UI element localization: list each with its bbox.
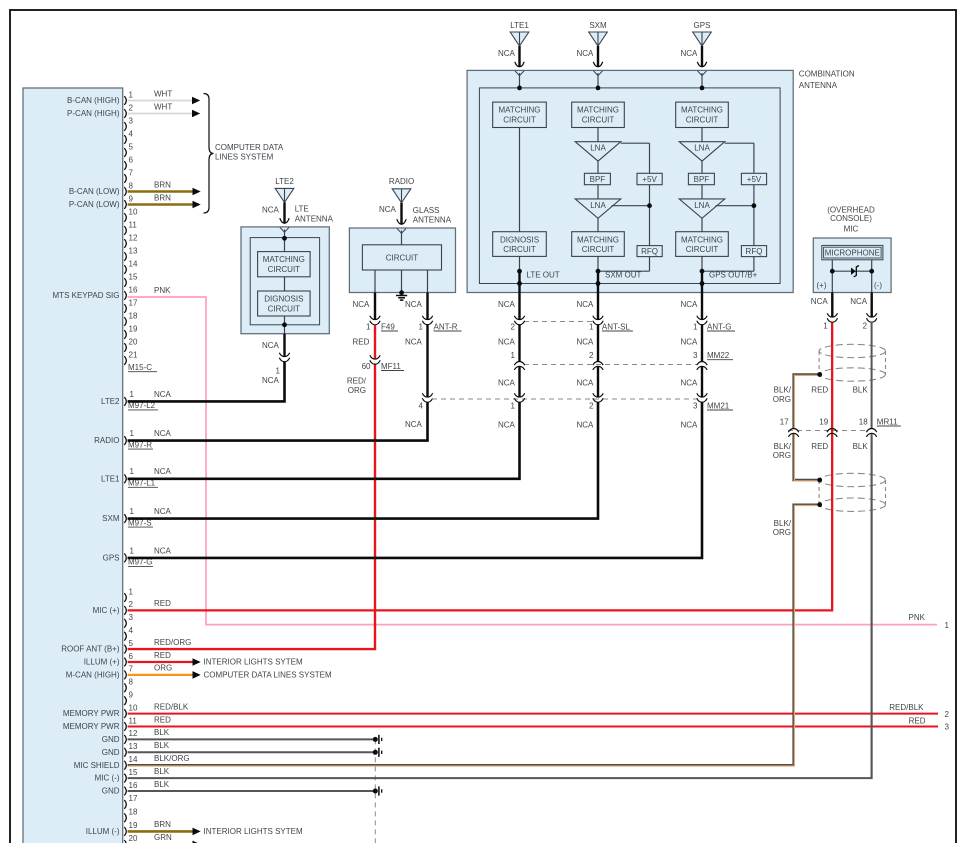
svg-text:GND: GND (102, 787, 120, 796)
svg-text:17: 17 (780, 417, 789, 426)
pin bracket M15-C pin 9 (124, 200, 126, 209)
svg-text:NCA: NCA (405, 337, 423, 346)
shield capsule 1 right side (885, 351, 887, 375)
svg-text:9: 9 (129, 691, 134, 700)
wire NCA mic(-) below (871, 293, 873, 318)
shield capsule 1 left side (818, 351, 820, 375)
+5V regulator SXM (637, 173, 662, 184)
svg-text:CIRCUIT: CIRCUIT (503, 116, 536, 125)
pin bracket M15-B pin 5 (124, 645, 126, 654)
svg-text:BLK/ORG: BLK/ORG (154, 754, 190, 763)
svg-text:19: 19 (129, 821, 138, 830)
junction dot top x=519.5 (517, 86, 522, 91)
svg-text:RFQ: RFQ (641, 247, 658, 256)
wire NCA RADIO to head unit (128, 402, 428, 441)
inline connector row1 GPS (697, 316, 707, 320)
wire NCA LTE2 to head unit (128, 362, 285, 402)
wire BLK/ORG MR11 to capsule2 top (794, 434, 820, 481)
svg-text:NCA: NCA (681, 379, 699, 388)
junction dot aux GPS (752, 203, 757, 208)
svg-text:MATCHING: MATCHING (498, 106, 540, 115)
shield capsule 2 right side (885, 480, 887, 505)
pin bracket M15-B pin 15 (124, 774, 126, 783)
pin bracket M15-B pin 14 (124, 761, 126, 770)
svg-text:NCA: NCA (577, 379, 595, 388)
entry notch RADIO (397, 229, 406, 234)
svg-text:LNA: LNA (694, 201, 710, 210)
BPF SXM (584, 173, 610, 184)
svg-text:MICROPHONE: MICROPHONE (825, 249, 880, 258)
wire NCA ANT-R col (426, 293, 428, 320)
wire WHT pin2 P-CAN HIGH (128, 113, 192, 115)
svg-text:1: 1 (130, 390, 135, 399)
svg-text:ILLUM (+): ILLUM (+) (84, 658, 120, 667)
svg-text:ANTENNA: ANTENNA (295, 214, 334, 223)
svg-text:LTE2: LTE2 (275, 177, 294, 186)
pin bracket M15-C pin 1 (124, 96, 126, 105)
entry arrow RADIO (397, 219, 406, 224)
svg-text:6: 6 (129, 652, 134, 661)
pin bracket M15-C pin 17 (124, 304, 126, 313)
circuit glass antenna (362, 245, 441, 270)
svg-text:LINES SYSTEM: LINES SYSTEM (215, 153, 274, 162)
junction dot top x=702 (700, 86, 705, 91)
svg-text:MATCHING: MATCHING (577, 106, 619, 115)
wire RFQ to GPS out (702, 270, 754, 272)
svg-text:1: 1 (130, 507, 135, 516)
junction dot mic right (869, 269, 874, 274)
pin bracket M15-C pin 16 (124, 291, 126, 300)
inline connector MM22 LTE (514, 366, 524, 370)
svg-text:NCA: NCA (353, 300, 371, 309)
svg-text:1: 1 (276, 366, 281, 375)
pin bracket M15-B pin 9 (124, 696, 126, 705)
shield tap dot capsule2 bottom (817, 502, 822, 507)
svg-text:CIRCUIT: CIRCUIT (582, 245, 615, 254)
pin bracket M15-B pin 18 (124, 813, 126, 822)
wire +5V to RFQ SXM (649, 185, 651, 246)
wire GPS col 2 (701, 161, 703, 173)
inline connector MF11 pin60 (370, 355, 380, 359)
pin bracket M15-C pin 6 (124, 161, 126, 170)
svg-text:17: 17 (129, 794, 138, 803)
svg-text:4: 4 (129, 626, 134, 635)
wire circuit right leg (427, 270, 429, 293)
svg-text:ORG: ORG (773, 451, 791, 460)
svg-text:WHT: WHT (154, 89, 172, 98)
svg-text:GPS OUT/B+: GPS OUT/B+ (709, 270, 758, 279)
svg-text:CIRCUIT: CIRCUIT (268, 304, 301, 313)
inline connector LTE2 pin1 (279, 353, 289, 357)
svg-text:2: 2 (129, 103, 134, 112)
svg-text:CIRCUIT: CIRCUIT (503, 245, 536, 254)
pin bracket M15-B pin 11 (124, 722, 126, 731)
svg-text:BLK: BLK (853, 442, 869, 451)
LNA 2 GPS (679, 199, 725, 218)
matching circuit SXM top (572, 102, 625, 127)
wire RFQ down SXM (649, 257, 651, 272)
svg-text:NCA: NCA (681, 300, 699, 309)
microphone box (822, 245, 883, 259)
wire GPS col 1 (701, 128, 703, 142)
pin bracket M15-B pin 4 (124, 632, 126, 641)
svg-text:BPF: BPF (694, 175, 710, 184)
svg-text:MR11: MR11 (877, 417, 898, 426)
RFQ SXM (637, 246, 662, 257)
wire NCA GPS out 2 (701, 325, 703, 362)
svg-text:NCA: NCA (850, 297, 868, 306)
svg-text:BLK: BLK (853, 386, 869, 395)
svg-text:19: 19 (819, 417, 828, 426)
svg-text:ANT-SL: ANT-SL (602, 322, 631, 331)
inline connector row1 LTE (514, 316, 524, 320)
svg-text:INTERIOR LIGHTS SYTEM: INTERIOR LIGHTS SYTEM (204, 658, 303, 667)
pin bracket M15-B pin 10 (124, 709, 126, 718)
svg-text:NCA: NCA (681, 337, 699, 346)
svg-text:NCA: NCA (405, 300, 423, 309)
wire NCA LTE2 below box (283, 334, 285, 357)
svg-text:1: 1 (130, 467, 135, 476)
arrowhead pin20 (193, 841, 201, 843)
wire SXM col 2 (597, 161, 599, 173)
svg-text:12: 12 (129, 233, 138, 242)
svg-text:ORG: ORG (154, 664, 172, 673)
pin bracket M15-C pin 14 (124, 265, 126, 274)
LTE antenna box (241, 227, 329, 334)
svg-text:RED: RED (154, 715, 171, 724)
wire BLK MIC(-) pin15 (128, 436, 872, 778)
svg-text:WHT: WHT (154, 102, 172, 111)
svg-text:NCA: NCA (681, 421, 699, 430)
pin bracket M15-C pin 21 (124, 356, 126, 365)
wire RFQ to SXM out (598, 270, 650, 272)
svg-text:NCA: NCA (498, 421, 516, 430)
junction dot mic left (830, 269, 835, 274)
svg-text:13: 13 (129, 742, 138, 751)
wire mic left leg (831, 260, 833, 293)
svg-text:+5V: +5V (642, 175, 657, 184)
dashed connector row MR11 (788, 430, 868, 432)
wire BRN ILLUM(-) pin19 (128, 830, 193, 833)
svg-text:ILLUM (-): ILLUM (-) (86, 827, 120, 836)
matching circuit LTE2 (258, 252, 311, 277)
svg-text:COMPUTER DATA: COMPUTER DATA (215, 143, 284, 152)
svg-text:3: 3 (129, 116, 134, 125)
pin bracket M15-C pin 5 (124, 148, 126, 157)
svg-text:BLK: BLK (154, 728, 170, 737)
ground symbol glass antenna (396, 295, 407, 297)
shield capsule 2 left side (818, 480, 820, 505)
svg-text:16: 16 (129, 781, 138, 790)
svg-text:NCA: NCA (498, 300, 516, 309)
wire NCA RADIO antenna (400, 203, 402, 225)
pin bracket M15-B pin 7 (124, 671, 126, 680)
pin bracket M15-C pin 2 (124, 109, 126, 118)
wire RADIO inner 1 (401, 231, 403, 245)
svg-text:NCA: NCA (811, 297, 829, 306)
svg-text:LTE1: LTE1 (510, 21, 529, 30)
inline connector MM21 GPS (697, 393, 707, 397)
svg-text:BRN: BRN (154, 820, 171, 829)
svg-text:GPS: GPS (103, 554, 120, 563)
svg-text:1: 1 (419, 322, 424, 331)
svg-text:COMBINATION: COMBINATION (799, 69, 855, 78)
dignosis circuit LTE2 (258, 291, 311, 316)
wire NCA SXM out 1 (597, 293, 599, 320)
svg-text:5: 5 (129, 639, 134, 648)
svg-text:NCA: NCA (262, 341, 280, 350)
BPF GPS (688, 173, 714, 184)
svg-text:(-): (-) (874, 281, 882, 290)
svg-text:BPF: BPF (590, 175, 606, 184)
shield tap dot capsule1 (817, 372, 822, 377)
svg-text:8: 8 (129, 678, 134, 687)
wire RED MEMORY PWR pin11 (128, 726, 938, 728)
svg-text:20: 20 (129, 337, 138, 346)
junction dot LTE OUT (517, 269, 522, 274)
svg-text:13: 13 (129, 246, 138, 255)
svg-text:LNA: LNA (590, 201, 606, 210)
entry notch at x=702 (698, 71, 707, 76)
pin bracket M97-R pin 1 (124, 436, 126, 445)
wire aux down to +5V GPS (753, 143, 755, 173)
svg-text:MEMORY PWR: MEMORY PWR (63, 722, 120, 731)
svg-text:B-CAN (LOW): B-CAN (LOW) (69, 187, 120, 196)
svg-text:NCA: NCA (577, 421, 595, 430)
wire NCA antenna LTE1 (518, 46, 520, 67)
svg-text:2: 2 (945, 710, 950, 719)
svg-text:10: 10 (129, 207, 138, 216)
svg-text:ANTENNA: ANTENNA (799, 81, 838, 90)
wire LTE OUT out (518, 271, 520, 292)
svg-text:MM21: MM21 (707, 401, 730, 410)
wire into inner box x=598 (597, 73, 599, 88)
svg-text:MATCHING: MATCHING (577, 235, 619, 244)
inline connector mic pin2 (867, 313, 877, 317)
svg-text:NCA: NCA (405, 420, 423, 429)
svg-text:2: 2 (589, 401, 594, 410)
svg-text:60: 60 (362, 362, 371, 371)
svg-text:19: 19 (129, 324, 138, 333)
pin bracket M15-C pin 11 (124, 226, 126, 235)
dashed connector row MM21 (432, 398, 697, 400)
svg-text:GND: GND (102, 748, 120, 757)
svg-text:NCA: NCA (262, 206, 280, 215)
wire NCA F49 col (374, 293, 376, 320)
inline connector MM22 SXM (593, 366, 603, 370)
dashed ground link line (374, 739, 376, 843)
arrowhead pin9 (193, 201, 201, 209)
wire mic right leg (871, 260, 873, 293)
arrowhead pin1 (192, 97, 200, 105)
svg-text:GND: GND (102, 735, 120, 744)
pin bracket M15-C pin 3 (124, 122, 126, 131)
svg-text:NCA: NCA (154, 390, 172, 399)
wire LNA1 GPS to +5V (725, 142, 754, 144)
svg-text:LTE2: LTE2 (101, 397, 120, 406)
wire NCA LTE out 2 (518, 325, 520, 362)
junction dot top x=598 (596, 86, 601, 91)
svg-text:CIRCUIT: CIRCUIT (686, 245, 719, 254)
svg-text:M-CAN (HIGH): M-CAN (HIGH) (66, 671, 120, 680)
pin bracket M15-C pin 4 (124, 135, 126, 144)
wire BLK GND pin12 (128, 738, 376, 740)
wire aux down to +5V SXM (649, 143, 651, 173)
svg-text:RADIO: RADIO (389, 177, 414, 186)
svg-text:LTE: LTE (295, 205, 309, 214)
LTE antenna inner box (250, 238, 319, 325)
zener diode mic (851, 268, 856, 275)
wire RFQ down GPS (753, 257, 755, 272)
matching circuit LTE (493, 102, 547, 127)
svg-text:GPS: GPS (694, 21, 711, 30)
pin bracket M15-C pin 20 (124, 343, 126, 352)
svg-text:1: 1 (129, 90, 134, 99)
antenna symbol GPS (693, 32, 712, 46)
pin bracket M15-B pin 2 (124, 606, 126, 615)
wire GPS col 4 (701, 217, 703, 231)
pin bracket M15-B pin 12 (124, 735, 126, 744)
pin bracket M97-L1 pin 1 (124, 474, 126, 483)
svg-text:1: 1 (129, 587, 134, 596)
junction dot inner edge GPS OUT/B+ (700, 281, 705, 286)
svg-text:3: 3 (129, 613, 134, 622)
svg-text:18: 18 (859, 417, 868, 426)
svg-text:CONSOLE): CONSOLE) (830, 214, 872, 223)
dashed connector row ANT-SL (524, 321, 592, 323)
svg-text:1: 1 (130, 546, 135, 555)
svg-text:2: 2 (511, 322, 516, 331)
svg-text:18: 18 (129, 808, 138, 817)
svg-text:ANT-R: ANT-R (434, 322, 458, 331)
svg-text:INTERIOR LIGHTS SYTEM: INTERIOR LIGHTS SYTEM (204, 827, 303, 836)
wire mic diode link (832, 270, 871, 272)
entry arrow GPS (697, 62, 706, 67)
svg-text:CIRCUIT: CIRCUIT (582, 116, 615, 125)
svg-text:MF11: MF11 (381, 362, 401, 371)
wire NCA GPS to head unit (128, 402, 702, 558)
wire into inner box x=519.5 (519, 73, 521, 88)
svg-text:1: 1 (945, 621, 950, 630)
svg-text:MIC SHIELD: MIC SHIELD (74, 761, 120, 770)
svg-text:7: 7 (129, 168, 134, 177)
svg-text:SXM: SXM (102, 514, 120, 523)
svg-text:11: 11 (129, 220, 138, 229)
svg-text:BRN: BRN (154, 193, 171, 202)
wire LTE2 inner 3 (284, 316, 286, 334)
svg-text:NCA: NCA (577, 300, 595, 309)
wire BLK/ORG MIC SHIELD pin14 (128, 505, 820, 766)
entry arrow LTE1 (515, 62, 524, 67)
svg-text:1: 1 (823, 321, 828, 330)
inline connector MM21 SXM (593, 393, 603, 397)
svg-text:NCA: NCA (154, 546, 172, 555)
wire BLK GND pin16 (128, 790, 376, 792)
svg-text:NCA: NCA (154, 507, 172, 516)
wire WHT pin1 B-CAN HIGH (128, 100, 192, 102)
svg-text:3: 3 (693, 401, 698, 410)
svg-text:LTE1: LTE1 (101, 474, 120, 483)
svg-text:4: 4 (129, 129, 134, 138)
svg-text:4: 4 (419, 401, 424, 410)
matching circuit SXM bottom (572, 232, 625, 257)
svg-text:MATCHING: MATCHING (263, 255, 305, 264)
wire NCA mic(+) below (831, 293, 833, 318)
pin bracket M15-B pin 16 (124, 787, 126, 796)
ground dot glass antenna (399, 290, 404, 295)
pin bracket M97-L2 pin 1 (124, 397, 126, 406)
wire +5V to RFQ GPS (753, 185, 755, 246)
svg-text:1: 1 (693, 322, 698, 331)
arrowhead pin6 (193, 658, 201, 666)
svg-text:RED: RED (909, 717, 926, 726)
wire PNK MTS keypad signal (128, 297, 937, 625)
matching circuit GPS top (676, 102, 729, 127)
arrowhead pin8 (193, 188, 201, 196)
svg-text:7: 7 (129, 665, 134, 674)
svg-text:CIRCUIT: CIRCUIT (686, 116, 719, 125)
svg-text:NCA: NCA (577, 49, 595, 58)
svg-text:BRN: BRN (154, 180, 171, 189)
svg-text:ORG: ORG (773, 395, 791, 404)
svg-text:SXM: SXM (589, 21, 607, 30)
svg-text:MATCHING: MATCHING (681, 235, 723, 244)
svg-text:CIRCUIT: CIRCUIT (268, 265, 301, 274)
wire NCA antenna SXM (597, 46, 599, 67)
wire LNA1 SXM to +5V (621, 142, 650, 144)
wire BLK mic(-) vertical lower (871, 434, 873, 779)
svg-text:RED: RED (811, 386, 828, 395)
antenna symbol LTE2 (275, 188, 294, 202)
junction dot inner edge LTE OUT (517, 281, 522, 286)
svg-text:BLK/: BLK/ (774, 386, 792, 395)
microphone box inner line (824, 247, 882, 258)
wire BLK GND pin13 (128, 751, 376, 753)
dashed connector row MM22 (524, 364, 697, 366)
svg-text:NCA: NCA (154, 429, 172, 438)
inline connector MM21 pin4 radio (422, 393, 432, 397)
wire GPS col 3 (701, 185, 703, 199)
shield capsule 2 (819, 473, 885, 486)
svg-text:(+): (+) (817, 281, 827, 290)
inline connector MM22 GPS (697, 366, 707, 370)
wire BRN pin9 P-CAN LOW (128, 203, 193, 206)
svg-text:1: 1 (589, 322, 594, 331)
svg-text:RED: RED (811, 442, 828, 451)
svg-text:16: 16 (129, 285, 138, 294)
svg-text:NCA: NCA (681, 49, 699, 58)
arrowhead pin2 (192, 110, 200, 118)
svg-text:B-CAN (HIGH): B-CAN (HIGH) (67, 96, 120, 105)
wire BLK/ORG shield capsule1 to MR11 (794, 375, 820, 429)
svg-text:COMPUTER DATA LINES SYSTEM: COMPUTER DATA LINES SYSTEM (204, 671, 333, 680)
svg-text:P-CAN (LOW): P-CAN (LOW) (69, 200, 120, 209)
LNA 1 SXM (575, 142, 621, 161)
inline connector row1 SXM (593, 316, 603, 320)
wire BRN pin8 B-CAN LOW (128, 190, 193, 193)
wire SXM col 1 (597, 128, 599, 142)
svg-text:ANT-G: ANT-G (707, 322, 731, 331)
pin bracket M15-C pin 8 (124, 187, 126, 196)
LNA 1 GPS (679, 142, 725, 161)
junction dot SXM OUT (596, 269, 601, 274)
wire NCA LTE to head unit (128, 402, 520, 479)
inline connector MR11 pin18 (866, 433, 876, 437)
combination antenna outer box (467, 70, 793, 292)
wire circuit middle leg (401, 270, 403, 293)
wire NCA LTE out 3 (518, 367, 520, 398)
ground splice pin12 (373, 737, 378, 742)
